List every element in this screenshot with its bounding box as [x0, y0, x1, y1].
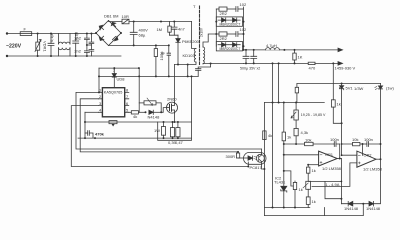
sense resistor 0.39 [168, 121, 177, 145]
current set chain: resistor [307, 164, 316, 182]
filter inductor 4.7uH [266, 43, 280, 50]
resistor 1W vertical [154, 122, 166, 139]
sense resistor 0.47 [175, 121, 184, 145]
svg-text:300R: 300R [226, 154, 236, 159]
output arrow bottom [338, 62, 343, 66]
svg-text:2: 2 [99, 94, 102, 99]
trimmer voltage set [291, 103, 326, 129]
indicator LED [375, 84, 395, 160]
IC right pin stubs [125, 92, 129, 112]
svg-text:1N4148: 1N4148 [344, 206, 359, 211]
svg-text:MBR20200CT: MBR20200CT [220, 23, 241, 27]
wire IC pin6 left long run L3 [71, 106, 248, 167]
resistor on 333 branch [331, 100, 340, 107]
OP1 feedback cap [330, 137, 340, 147]
secondary left bus [215, 9, 217, 46]
OP2 feedback cap [364, 137, 382, 147]
svg-text:10k: 10k [305, 137, 311, 142]
svg-text:7: 7 [113, 68, 116, 73]
interwinding capacitor [196, 64, 211, 77]
clamp node wire [170, 34, 179, 36]
svg-text:1459-930 V: 1459-930 V [335, 66, 356, 71]
clamp resistor 1M [156, 22, 171, 36]
wire opto cathode to L3 [247, 162, 249, 167]
svg-text:MBR20100CT: MBR20100CT [220, 47, 241, 51]
wire IC pin7 left long run L2 [80, 99, 238, 152]
svg-text:1/2 LM358: 1/2 LM358 [322, 166, 342, 171]
svg-text:8: 8 [126, 88, 129, 93]
svg-text:1k: 1k [287, 135, 291, 140]
zener 5V1 [340, 84, 364, 157]
svg-text:4,7µH: 4,7µH [266, 43, 277, 48]
AC input terminals [6, 32, 8, 34]
wire secondary bottom lead [203, 63, 244, 65]
optocoupler PC817 [244, 152, 267, 170]
wire secondary top lead [203, 34, 216, 47]
wire bridge+ to fusible resistor [109, 21, 123, 22]
wire top AC line [7, 33, 96, 35]
label near clamp bottom [138, 67, 140, 69]
resistor 1K across outputs [293, 50, 303, 64]
svg-text:2N60: 2N60 [167, 97, 177, 102]
Y-capacitors C5 C6 [87, 33, 94, 57]
feedback box top line [264, 102, 324, 104]
svg-text:TL431: TL431 [274, 179, 286, 184]
diode D2 [366, 201, 381, 210]
svg-text:5: 5 [126, 108, 129, 113]
wire 272.5 vertical [272, 63, 274, 207]
wire current set to OP2 plus [312, 163, 357, 187]
snubber cap 102 (top) [236, 2, 247, 12]
wire OP2 minus drop [362, 144, 364, 155]
svg-text:OP2: OP2 [364, 153, 373, 158]
wire gate [161, 108, 167, 113]
wire OP1 out down to diode line [340, 159, 342, 204]
resistor on IC pin5 [129, 111, 146, 119]
wire 333 down and right to OP2 input [333, 107, 341, 123]
svg-text:1/3W: 1/3W [354, 86, 364, 91]
current set resistor bottom [306, 197, 315, 208]
0V output rail [244, 62, 341, 64]
output arrow top [338, 48, 343, 52]
wire IC pin8 left long run L1 [76, 92, 262, 149]
svg-text:2R2: 2R2 [220, 11, 228, 16]
sense top bus [85, 121, 192, 123]
svg-text:(1w): (1w) [386, 86, 394, 91]
svg-text:VDR1: VDR1 [43, 41, 48, 52]
svg-text:2n2: 2n2 [74, 36, 81, 41]
wire DC- rail [109, 45, 169, 47]
bulk capacitor 68u 400V [130, 22, 148, 46]
svg-text:1N4148: 1N4148 [366, 206, 381, 211]
wire clamp box right edge [192, 22, 196, 49]
wire lower aux line y76.4 [99, 65, 198, 93]
resistor feeding aux line [295, 84, 298, 103]
lower line under IC [78, 137, 192, 139]
svg-text:~220V: ~220V [6, 44, 22, 50]
svg-text:3: 3 [99, 101, 102, 106]
svg-text:68µ: 68µ [139, 33, 146, 38]
svg-text:F: F [24, 27, 27, 32]
cap and 470k under IC [84, 112, 105, 139]
common mode choke L1 [59, 34, 71, 57]
TL431 ref loop wire [284, 171, 294, 186]
resistor 470 in 0V rail [308, 62, 316, 70]
svg-text:1/2 LM358: 1/2 LM358 [363, 167, 383, 172]
OP2 input line y144 [352, 137, 366, 146]
svg-text:4,3k: 4,3k [301, 130, 309, 135]
svg-text:10R: 10R [122, 14, 129, 19]
snubber resistor 2R2 (top) [216, 7, 236, 16]
feedback box left edge [263, 103, 265, 216]
svg-text:T: T [193, 4, 196, 9]
svg-text:DB1 6M: DB1 6M [104, 14, 118, 19]
IC U1 PWM controller [102, 88, 124, 117]
transformer T1 primary [193, 4, 196, 62]
feedback box bottom [264, 208, 324, 216]
svg-text:470: 470 [309, 66, 316, 71]
svg-text:PC817: PC817 [250, 165, 263, 170]
wire OP1 minus feed [284, 154, 319, 156]
svg-text:1M: 1M [156, 27, 162, 32]
varistor R2 [35, 33, 48, 58]
supply diode UD8 above IC [112, 67, 125, 88]
wire DC- down to aux bus [168, 45, 170, 76]
wire 333 branch [332, 63, 334, 99]
svg-text:100n: 100n [330, 137, 339, 142]
svg-text:4: 4 [99, 108, 102, 113]
wire aux bus y68 [99, 67, 139, 69]
diode 1N4148 near IC [145, 110, 163, 119]
svg-text:2x10V: 2x10V [199, 27, 203, 37]
aux supply line y83.5 [297, 83, 381, 85]
svg-text:1k: 1k [337, 102, 341, 107]
svg-text:KA5Q0765: KA5Q0765 [104, 90, 123, 94]
wire source down [174, 113, 176, 122]
resistor 10k horizontal [283, 137, 334, 145]
wire bottom AC line [7, 55, 121, 57]
svg-text:102: 102 [240, 2, 247, 7]
bias filter cap [167, 53, 171, 55]
svg-text:5V1: 5V1 [346, 86, 354, 91]
svg-text:500µ 35V x2: 500µ 35V x2 [240, 67, 260, 71]
wire IC pin5 branch down [85, 111, 98, 113]
snubber cap 102 (bottom) [236, 27, 247, 37]
resistor under IC [109, 121, 117, 127]
dual diode MBR20100CT (bottom) [216, 42, 242, 52]
opto resistor 300R [226, 151, 244, 159]
svg-text:OP1: OP1 [325, 152, 334, 157]
capacitor C1 0.1u [48, 33, 54, 58]
wire DC+ rail [129, 21, 192, 23]
TL431 ref resistor [293, 181, 302, 208]
svg-text:1W: 1W [154, 128, 160, 133]
diode D1 [344, 201, 359, 210]
op-amp OP2 [357, 151, 383, 172]
svg-text:1k: 1k [312, 168, 316, 173]
resistor 4.3k [294, 128, 308, 144]
capacitor C2 0.1u [73, 31, 79, 57]
filter cap 500u (2) [251, 50, 257, 64]
IC left pin stubs [98, 92, 102, 112]
svg-text:0,1µ: 0,1µ [49, 33, 54, 42]
filter cap 500u (1) [243, 50, 249, 64]
wire primary bottom to drain [175, 62, 197, 65]
svg-text:4n7: 4n7 [178, 27, 185, 32]
svg-text:7: 7 [126, 94, 129, 99]
svg-text:4k: 4k [133, 114, 137, 119]
sense bottom bus [158, 76, 192, 140]
feedback trimmer near IC [139, 98, 161, 112]
wire aux bus down to gate line [138, 68, 140, 112]
+V output rail [244, 49, 341, 51]
svg-text:N4148: N4148 [148, 115, 161, 120]
svg-text:KD103: KD103 [183, 53, 196, 58]
current set trimmer [303, 181, 311, 197]
clamp diode P6KE200 [176, 35, 200, 64]
wire OP1 plus input [308, 164, 318, 166]
snubber resistor 2R2 (bottom) [216, 32, 236, 41]
bridge rectifier DB1 [95, 14, 122, 46]
svg-text:2R2: 2R2 [220, 36, 228, 41]
dual diode MBR20200CT (top) [216, 17, 242, 27]
svg-text:100µ: 100µ [159, 51, 164, 61]
transformer core [199, 6, 201, 66]
transformer secondary [203, 47, 205, 64]
wire OP1 fb to output [339, 144, 341, 159]
svg-text:470k: 470k [95, 131, 105, 136]
wire diode mid to box bottom [324, 204, 363, 216]
secondary right bus [243, 7, 245, 50]
wire OP1 output [337, 158, 341, 160]
svg-text:6: 6 [126, 101, 129, 106]
wire drain up [174, 65, 176, 103]
fusible resistor R1 [122, 14, 130, 24]
svg-text:1k: 1k [312, 199, 316, 204]
svg-text:1K: 1K [298, 55, 303, 60]
fuse F1 [20, 27, 32, 36]
vertical divider resistor (left, on box edge) [263, 131, 273, 140]
op-amp OP1 [319, 151, 342, 171]
wire OP2 output [376, 158, 381, 160]
TL431 [274, 170, 287, 208]
svg-text:19,25 - 19,85 V: 19,25 - 19,85 V [301, 113, 326, 117]
svg-text:2n2: 2n2 [74, 49, 81, 54]
wire 278.6 vertical [278, 63, 280, 102]
vertical divider resistor (mid) [282, 103, 291, 187]
wire opto emitter to box left [262, 164, 265, 169]
svg-text:P6KE200: P6KE200 [182, 39, 200, 44]
Y-capacitors C3 C4 2n2 [74, 33, 89, 58]
svg-text:10k: 10k [352, 137, 358, 142]
wire opto collector to L1 [261, 149, 263, 153]
ground rail in box [264, 207, 309, 209]
svg-text:100n: 100n [364, 137, 373, 142]
MOSFET Q1 [167, 97, 178, 114]
svg-text:1k: 1k [299, 187, 303, 192]
clamp capacitor 4n7 [172, 22, 186, 36]
bias resistor [155, 45, 157, 76]
svg-text:UD8: UD8 [117, 77, 126, 82]
svg-text:4k: 4k [268, 133, 272, 138]
output diode line [341, 159, 380, 204]
